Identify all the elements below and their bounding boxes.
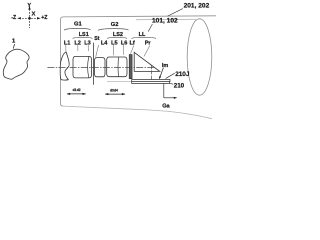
- svg-text:L6: L6: [121, 40, 128, 46]
- svg-text:X: X: [32, 12, 36, 18]
- svg-text:Pr: Pr: [145, 40, 152, 46]
- svg-text:G1: G1: [74, 22, 83, 28]
- svg-text:210: 210: [174, 82, 185, 89]
- svg-text:201, 202: 201, 202: [184, 2, 210, 9]
- svg-text:Lf: Lf: [130, 40, 135, 46]
- svg-text:d4: d4: [114, 88, 118, 92]
- svg-text:L1: L1: [64, 40, 71, 46]
- svg-text:L5: L5: [111, 40, 118, 46]
- svg-text:L3: L3: [84, 40, 91, 46]
- svg-text:G2: G2: [111, 22, 119, 28]
- svg-text:St: St: [94, 36, 100, 42]
- svg-text:+Z: +Z: [41, 15, 48, 21]
- svg-text:Ga: Ga: [162, 104, 170, 110]
- svg-text:Y: Y: [27, 3, 31, 9]
- svg-text:L4: L4: [101, 40, 108, 46]
- svg-text:-Z: -Z: [11, 15, 17, 21]
- svg-text:d2: d2: [77, 88, 81, 92]
- svg-text:Im: Im: [162, 63, 169, 69]
- svg-text:210J: 210J: [175, 71, 190, 78]
- svg-text:101, 102: 101, 102: [152, 17, 178, 24]
